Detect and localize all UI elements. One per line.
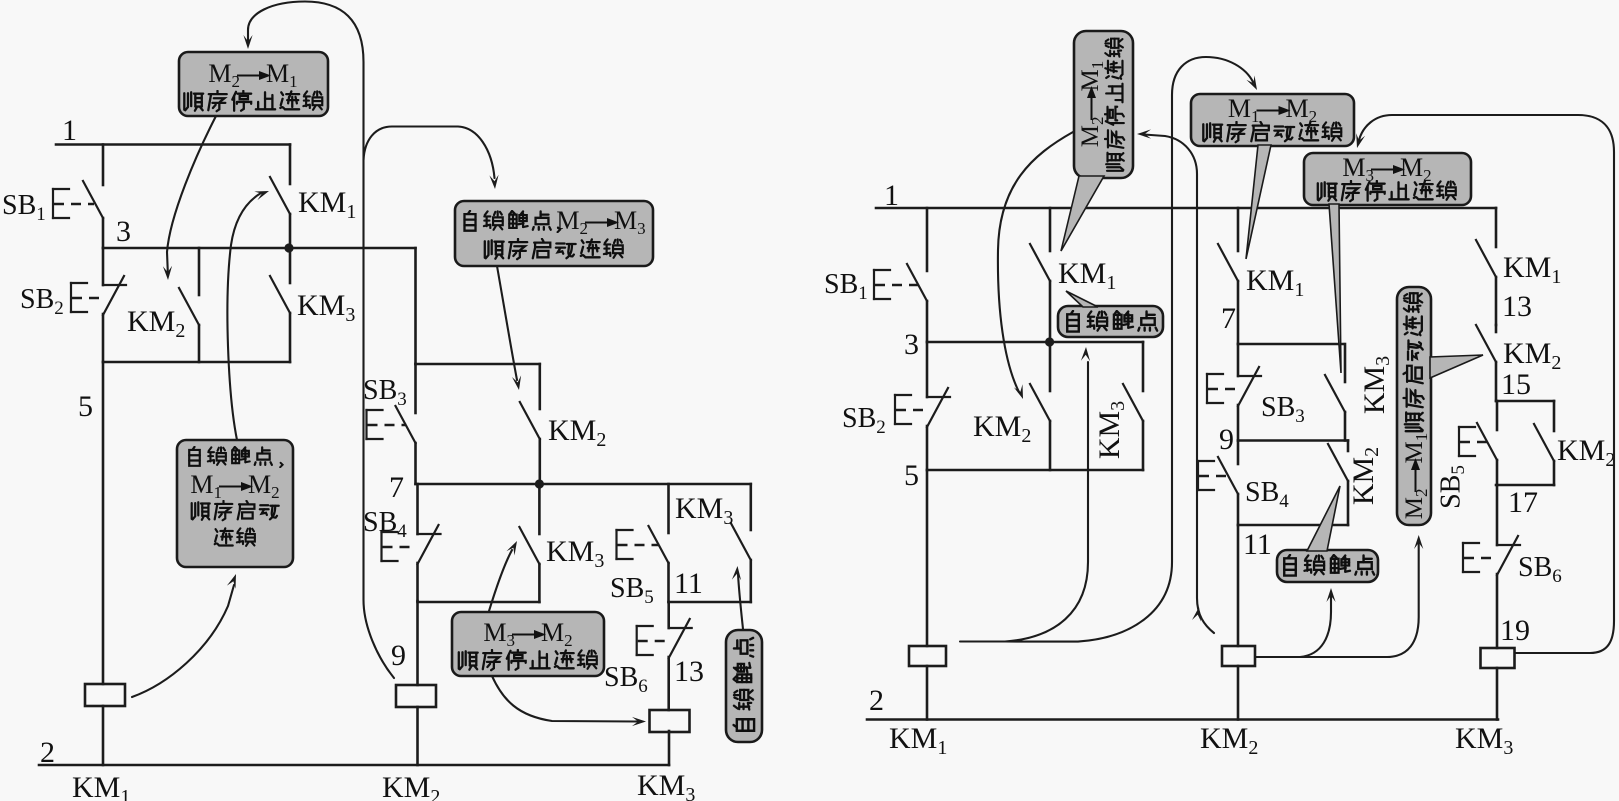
coil KM3 (right) (1481, 648, 1515, 668)
pushbutton SB6 (left stop button) (637, 602, 692, 710)
wire KM1 coil to bus 2 (102, 706, 105, 765)
svg-text:KM3: KM3 (637, 769, 695, 801)
node label 9 (right) (1219, 423, 1234, 456)
node label 11 (right) (1243, 528, 1272, 561)
callout box self-lock contact (left, rotated) (726, 630, 762, 742)
contact KM1 (right right-section) (1476, 208, 1496, 325)
label SB3 (left) (363, 375, 407, 410)
svg-text:SB2: SB2 (842, 403, 886, 438)
svg-text:KM3: KM3 (1455, 722, 1513, 759)
label SB1 (left) (2, 190, 46, 225)
callout box M2-M1 stop interlock (right, rotated two-column) (1074, 31, 1133, 178)
contact KM3 self-lock (left right branch) (731, 484, 751, 602)
label KM2 rotated (right middle) (1347, 447, 1383, 505)
wire node3 corner down to SB3 block (414, 248, 417, 364)
svg-text:KM1: KM1 (298, 186, 356, 223)
svg-text:15: 15 (1501, 368, 1531, 401)
wire node 5 line (right) (927, 469, 1143, 472)
node label 3 (left) (116, 215, 131, 248)
svg-text:11: 11 (1243, 528, 1272, 561)
node label 7 (left) (389, 471, 404, 504)
wire bus line 1 (right diagram) (876, 207, 1496, 210)
svg-text:KM1: KM1 (1246, 264, 1304, 301)
label SB4 (left) (363, 507, 407, 542)
svg-text:2: 2 (40, 736, 55, 769)
label SB2 (left) (20, 284, 64, 319)
junction dot node7/KM2 (left) (535, 479, 544, 488)
contact KM3 interlock (left upper) (270, 248, 290, 362)
annotation arrow box to KM3 coil (left) (492, 676, 646, 726)
wedge pointer self-lock box to KM2 contact (right) (1307, 486, 1340, 551)
svg-text:SB5: SB5 (1435, 465, 1469, 509)
wire KM2 coil to bus2 (right) (1237, 666, 1240, 720)
node label 11 (left) (674, 567, 703, 600)
wire left rail to KM1 coil (right) (926, 470, 929, 646)
wire KM1 coil to bus2 (right) (926, 666, 929, 720)
wire SB3/KM2 block top (left) (416, 363, 540, 366)
svg-text:SB5: SB5 (610, 573, 654, 608)
annotation KM1 coil to self-lock box (right) (960, 347, 1090, 642)
annotation arrow KM1 coil to box (left) (132, 574, 236, 697)
coil KM2 (left) (396, 685, 436, 707)
annotation KM3 coil to M3-M2 box (right) (1356, 115, 1614, 653)
svg-text:KM3: KM3 (675, 492, 733, 529)
wire left rail to KM1 coil (102, 362, 105, 684)
label KM2 (right right-section) (1503, 337, 1561, 374)
svg-text:KM1: KM1 (889, 722, 947, 759)
svg-text:9: 9 (1219, 423, 1234, 456)
wire node 9 line (right) (1238, 439, 1348, 442)
svg-text:SB4: SB4 (1245, 477, 1289, 512)
coil KM1 (right) (909, 646, 946, 666)
wire node 15 line (right) (1496, 400, 1554, 403)
svg-text:KM3: KM3 (1358, 356, 1394, 414)
wire node 17 line (right) (1496, 484, 1554, 487)
label KM3 (left bottom) (637, 769, 695, 801)
label SB3 (right) (1261, 392, 1305, 427)
annotation arrow box to KM2 contact (left) (163, 116, 216, 280)
annotation KM1 coil to M1-M2 box (right) (1005, 57, 1257, 642)
node label 1 (left) (62, 114, 77, 147)
annotation arrow rotated box to KM3 self-lock contact (left) (732, 566, 743, 629)
wire KM3 coil to bus2 (right) (1496, 668, 1499, 720)
label KM2 (right left-section) (973, 410, 1031, 447)
label SB5 (left) (610, 573, 654, 608)
label KM1 (right right-section) (1503, 251, 1561, 288)
contact KM1 (right middle section) (1218, 208, 1238, 344)
pushbutton SB1 (right) (874, 264, 927, 342)
svg-text:KM2: KM2 (1347, 447, 1383, 505)
wire node 3 line (right) (927, 341, 1143, 344)
label KM2 (right bottom) (1200, 722, 1258, 759)
svg-text:7: 7 (389, 471, 404, 504)
label KM2 (left upper) (127, 305, 185, 342)
label KM1 (right left-section) (1058, 257, 1116, 294)
node label 5 (left) (78, 390, 93, 423)
svg-text:KM3: KM3 (297, 289, 355, 326)
callout box self-lock contact (right upper) (1058, 306, 1163, 337)
coil KM3 (left) (650, 710, 690, 732)
wire node 11 line (left) (669, 601, 751, 604)
callout box M3-M2 stop interlock (left) (452, 612, 604, 676)
node label 13 (left) (674, 655, 704, 688)
svg-text:KM2: KM2 (973, 410, 1031, 447)
wire node 3 line (left) (103, 247, 416, 250)
callout box self-lock M1-M2 start interlock (left) (177, 440, 293, 567)
svg-text:SB3: SB3 (1261, 392, 1305, 427)
callout box self-lock contact (right lower) (1277, 550, 1378, 582)
svg-text:KM2: KM2 (1557, 434, 1615, 471)
contact KM2 (right left-section) (1030, 342, 1050, 470)
label SB6 (left) (604, 662, 648, 697)
wire node 7 line (right) (1238, 343, 1343, 346)
label KM2 (left middle) (548, 414, 606, 451)
coil KM1 (left) (85, 684, 125, 706)
label KM3 rotated (right middle) (1358, 356, 1394, 414)
annotation arrow box to KM3 mid contact (left) (489, 541, 517, 611)
svg-text:5: 5 (904, 459, 919, 492)
wire SB4 down to KM2 coil (left) (416, 601, 419, 685)
pushbutton SB4 (right) (1198, 441, 1238, 526)
annotation branch to self-lock box (left) (364, 127, 499, 190)
label SB5 rotated (right) (1435, 465, 1469, 509)
pushbutton SB1 (left, with actuator) (53, 181, 103, 248)
annotation KM2 coil to M2-M1 stop box (right) (1137, 129, 1214, 633)
wedge pointer rotated box to KM2 contact (right) (1430, 355, 1483, 378)
svg-text:5: 5 (78, 390, 93, 423)
node label 13 (right) (1502, 290, 1532, 323)
svg-text:KM1: KM1 (1503, 251, 1561, 288)
callout box M1-M2 start interlock (right) (1191, 94, 1354, 146)
node label 1 (right) (884, 179, 899, 212)
svg-text:9: 9 (391, 639, 406, 672)
svg-text:SB4: SB4 (363, 507, 407, 542)
contact KM3 (right middle) (1325, 344, 1345, 441)
annotation arrow box to KM1 contact (left) (227, 191, 269, 440)
contact KM1 (left top) (270, 145, 290, 249)
label KM1 (right middle) (1246, 264, 1304, 301)
wedge pointer stop box to KM1 contact (right) (1061, 176, 1104, 251)
node label 9 (left) (391, 639, 406, 672)
contact KM2 (left middle) (520, 364, 540, 484)
svg-text:SB3: SB3 (363, 375, 407, 410)
svg-text:19: 19 (1500, 614, 1530, 647)
junction dot node3 (right) (1045, 337, 1054, 346)
label KM3 (left upper) (297, 289, 355, 326)
node label 2 (left) (40, 736, 55, 769)
pushbutton SB4 (left stop button) (382, 484, 441, 601)
contact KM1 (right left-section) (1030, 208, 1050, 342)
annotation line KM2 coil to stop-interlock box (left) (243, 2, 394, 679)
svg-text:KM3: KM3 (1093, 401, 1129, 459)
svg-text:KM3: KM3 (546, 535, 604, 572)
label KM3 (left middle) (546, 535, 604, 572)
label KM1 (left top) (298, 186, 356, 223)
label KM1 (right bottom) (889, 722, 947, 759)
annotation stop box to KM2 contact (right) (998, 132, 1073, 399)
pushbutton SB5 (right) (1459, 401, 1497, 485)
junction dot node3/KM1 (left) (284, 243, 293, 252)
svg-text:SB2: SB2 (20, 284, 64, 319)
wire KM3 coil to bus 2 (left) (668, 731, 671, 765)
node label 5 (right) (904, 459, 919, 492)
svg-text:KM1: KM1 (1058, 257, 1116, 294)
svg-text:KM2: KM2 (548, 414, 606, 451)
contact KM2 interlock (right section) (1476, 325, 1496, 401)
pushbutton SB2 (left stop button) (71, 248, 126, 362)
pushbutton SB2 (right) (895, 342, 950, 470)
wedge pointer M1-M2 box to KM1 contact (right) (1246, 145, 1271, 259)
svg-text:KM2: KM2 (1200, 722, 1258, 759)
contact KM3 (left middle) (519, 484, 539, 602)
wire parallel-block bottom (left) (103, 361, 290, 364)
svg-text:13: 13 (1502, 290, 1532, 323)
contact KM3 (right left-section) (1123, 342, 1143, 470)
label KM3 rotated (right left-section) (1093, 401, 1129, 459)
annotation KM2 coil to self-lock box (right) (1256, 588, 1336, 657)
svg-text:3: 3 (116, 215, 131, 248)
node label 2 (right) (869, 684, 884, 717)
wire bus line 1 (left diagram) (56, 143, 290, 146)
wire node 7 line (left) (416, 483, 751, 486)
svg-text:SB6: SB6 (604, 662, 648, 697)
node label 17 (right) (1508, 486, 1538, 519)
svg-text:11: 11 (674, 567, 703, 600)
wire right-diagram left rail top (926, 208, 929, 271)
label KM3 (left self-lock) (675, 492, 733, 529)
pushbutton SB6 (right) (1463, 485, 1520, 648)
svg-text:KM2: KM2 (382, 771, 440, 801)
node label 3 (right) (904, 328, 919, 361)
pushbutton SB5 (left start button) (617, 484, 669, 602)
callout box M3-M2 stop interlock (right) (1304, 153, 1471, 205)
svg-text:1: 1 (884, 179, 899, 212)
wire bus1 corner to KM1 (right section) (0, 0, 1, 1)
callout box M2-M1 start interlock (right, rotated) (1397, 287, 1431, 525)
pushbutton SB3 (right stop-style) (1207, 344, 1261, 441)
annotation arrow box to KM2 mid contact (left) (497, 266, 521, 390)
contact KM2 self-lock (right middle) (1328, 441, 1348, 526)
wedge pointer M3-M2 box to KM3 contact (right) (1329, 204, 1341, 373)
label KM1 (left bottom) (72, 771, 130, 801)
wire left rail top (bus1 to SB1) (102, 145, 105, 186)
svg-text:SB1: SB1 (824, 269, 868, 304)
label SB6 (right) (1518, 552, 1562, 587)
label KM3 (right bottom) (1455, 722, 1513, 759)
svg-text:SB1: SB1 (2, 190, 46, 225)
svg-text:3: 3 (904, 328, 919, 361)
svg-text:KM2: KM2 (127, 305, 185, 342)
callout box M2-M1 stop interlock (left) (179, 52, 328, 116)
wire mid rail to KM2 coil (right) (1237, 525, 1240, 646)
label SB2 (right) (842, 403, 886, 438)
node label 19 (right) (1500, 614, 1530, 647)
wedge pointer self-lock box to KM1 contact (right) (1066, 291, 1098, 307)
svg-text:13: 13 (674, 655, 704, 688)
svg-text:KM1: KM1 (72, 771, 130, 801)
svg-text:SB6: SB6 (1518, 552, 1562, 587)
label KM2 (left bottom) (382, 771, 440, 801)
svg-text:17: 17 (1508, 486, 1538, 519)
label SB1 (right) (824, 269, 868, 304)
node label 15 (right) (1501, 368, 1531, 401)
wire KM2 coil to bus 2 (left) (416, 707, 419, 765)
wire node 11 line (right) (1238, 524, 1348, 527)
wire bus line 2 (left diagram) (39, 764, 669, 767)
svg-text:7: 7 (1221, 302, 1236, 335)
label KM2 (right self-lock) (1557, 434, 1615, 471)
pushbutton SB3 (left start button) (367, 364, 416, 484)
wire KM3 to node 9 (left) (418, 601, 540, 604)
node label 7 (right) (1221, 302, 1236, 335)
annotation KM2 coil to rotated start box (right) (1300, 535, 1423, 657)
contact KM2 self-lock (left) (179, 248, 199, 362)
label SB4 (right) (1245, 477, 1289, 512)
callout box self-lock M2-M3 start interlock (left) (455, 201, 653, 266)
svg-text:1: 1 (62, 114, 77, 147)
svg-text:2: 2 (869, 684, 884, 717)
contact KM2 self-lock (right section) (1534, 401, 1554, 485)
wire bus line 2 (right diagram) (867, 718, 1498, 721)
coil KM2 (right) (1222, 646, 1255, 666)
